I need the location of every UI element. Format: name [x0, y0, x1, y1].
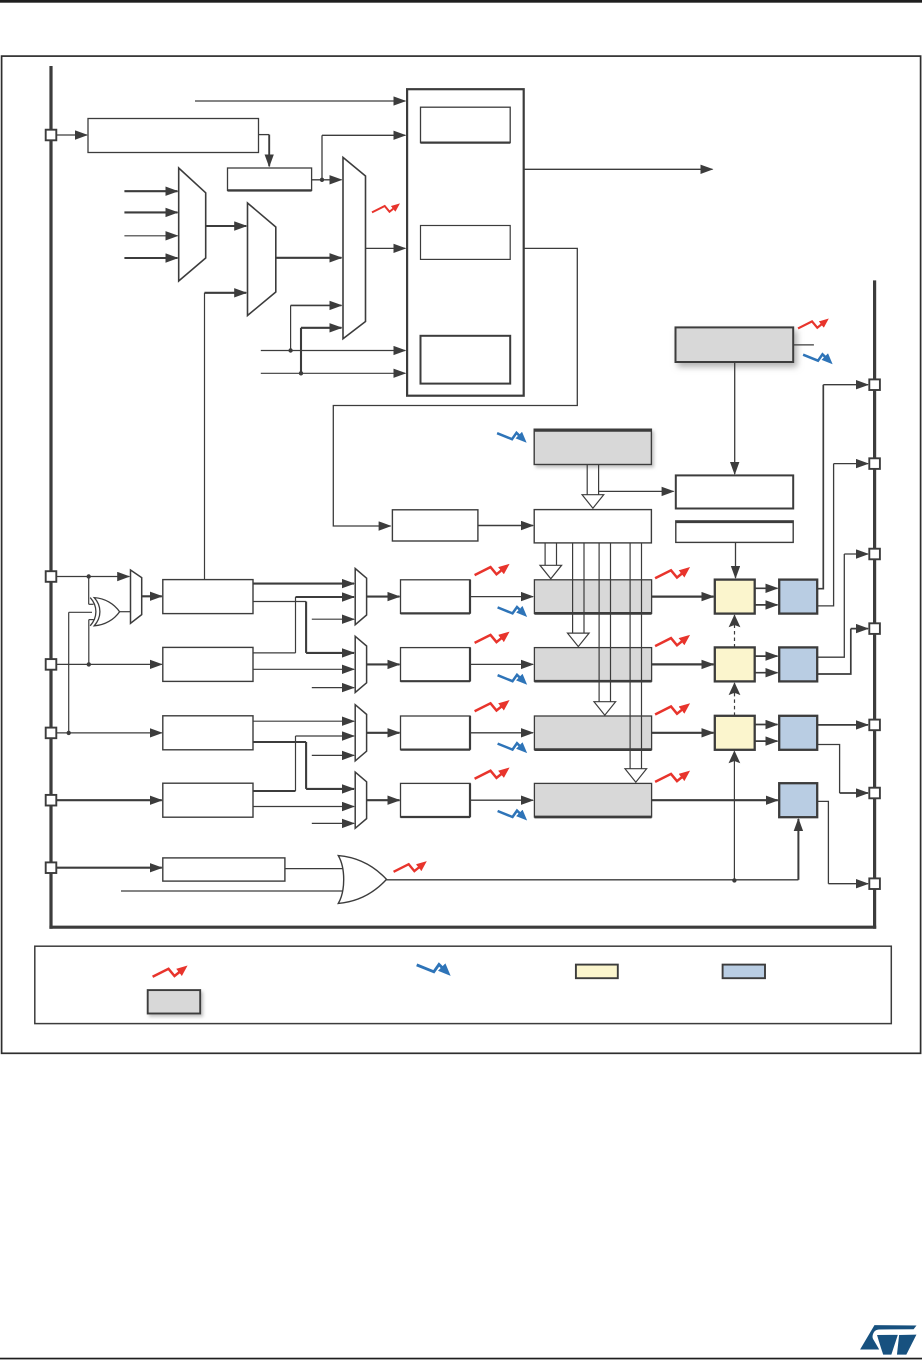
- wire CH3 tap to XOR: [69, 611, 92, 613]
- wire CH4 to IC4 filter: [56, 799, 161, 801]
- wire mux to IC1 prescaler: [367, 596, 400, 598]
- box output control OC1 (blue): [779, 580, 817, 614]
- ST Microelectronics logo: [860, 1325, 916, 1355]
- red event arrow at clock mux: [372, 206, 396, 212]
- node TIMx_CH2 on left bus: [46, 659, 57, 670]
- node TIMx_CH1 pin on right bus: [869, 379, 880, 390]
- wire TRC to IC4 mux: [312, 822, 354, 824]
- bottom bus link: [49, 926, 876, 929]
- wire ETR box to OR gate: [285, 868, 345, 870]
- figure outer frame: [2, 56, 921, 1053]
- wire TI1FP1 direct: [253, 583, 354, 585]
- stub wire from TRGO box: [793, 344, 814, 346]
- hollow arrow counter to CCR3: [598, 543, 600, 702]
- wire CH2 to IC2 filter: [56, 663, 161, 665]
- wire CCR2 to comparator: [652, 663, 714, 665]
- wire polarity box to input filter: [259, 134, 270, 136]
- wire TI4FP3 cross up: [253, 790, 296, 792]
- hollow arrow counter to CCR1: [544, 543, 546, 565]
- box IC2 prescaler: [401, 648, 471, 682]
- page top rule: [0, 0, 922, 3]
- wire ETRF to clock mux and trigger mux: [312, 179, 342, 181]
- wires comparator to output control 3: [755, 724, 778, 726]
- wire prescaler to capture register 3: [470, 732, 533, 734]
- legend yellow output stage box: [576, 965, 618, 979]
- blue interrupt arrow capture 4: [498, 811, 523, 817]
- wire ETRF up to OC4: [797, 819, 799, 880]
- block trigger controller: [407, 89, 524, 396]
- wire OC3N to pin: [817, 745, 839, 794]
- box trigger TRGO gray (shadowed): [676, 327, 794, 362]
- mux IC2 source select: [355, 636, 366, 692]
- mux slave mode controller select: [248, 203, 276, 316]
- box ETR input filter: [228, 168, 312, 190]
- legend gray shadowed register box: [148, 990, 201, 1013]
- box input filter & edge detector IC3: [163, 716, 253, 750]
- blue interrupt arrow at TRGO box: [803, 354, 828, 360]
- left APB bus (vertical): [49, 66, 52, 929]
- red event arrow CCR2 out: [655, 638, 685, 646]
- wire TI1FP2 cross down: [253, 601, 306, 603]
- box IC1 prescaler: [401, 580, 471, 614]
- wire TRC to IC1 mux: [312, 618, 354, 620]
- box slave controller aux: [676, 521, 793, 543]
- wire TI3FP4 cross down: [253, 741, 306, 743]
- red event arrow capture 2: [475, 635, 505, 643]
- wire TRGO output to other timers: [524, 168, 713, 170]
- box input filter & edge detector IC2: [163, 647, 253, 681]
- wire external trigger input to OR gate: [121, 890, 344, 892]
- red event arrow CCR1 out: [655, 570, 685, 578]
- wire OC2 to TIMx_CH2 pin: [817, 554, 844, 657]
- wire aux box to CC1 output stage: [735, 543, 737, 578]
- mux IC4 source select: [355, 772, 366, 828]
- box IC4 prescaler: [401, 783, 471, 817]
- wire ITR1 input: [124, 211, 177, 213]
- wire prescaler to capture register 2: [470, 663, 533, 665]
- mux IC3 source select: [355, 705, 366, 761]
- wire TI1FP1 tap to clock mux and block: [261, 350, 406, 352]
- box counter CNT: [534, 510, 651, 543]
- wire OC1N to pin: [817, 464, 833, 606]
- box auto-reload register ARR (shadowed): [534, 429, 651, 464]
- wire TI2FP2 direct: [253, 668, 354, 670]
- wire prescaler to capture register 1: [470, 596, 533, 598]
- box IC3 prescaler: [401, 716, 471, 750]
- wire compare chain CC3 to CC2 (dashed): [734, 693, 736, 716]
- node pin node on right bus: [869, 458, 880, 469]
- box encoder interface: [421, 226, 511, 260]
- wire mux to IC2 prescaler: [367, 663, 400, 665]
- wire mux to slave mode mux: [206, 225, 247, 227]
- legend frame: [35, 946, 892, 1023]
- node TIMx_ETR on left bus: [46, 130, 57, 141]
- red event arrow CCR4 out: [655, 774, 685, 782]
- box input filter & edge detector IC1: [163, 580, 253, 614]
- node TIMx_CH3 on left bus: [46, 728, 57, 739]
- XOR gate TI1 selection: [90, 598, 96, 626]
- box output control OC3 (blue): [779, 716, 817, 750]
- legend blue output control box: [723, 965, 765, 979]
- box capture/compare register CCR4: [534, 783, 651, 817]
- wire TI2FP1 cross up: [253, 652, 296, 654]
- hollow arrow counter to CCR4: [629, 543, 631, 769]
- wire OC4 to TIMx_CH4 pin: [817, 801, 828, 883]
- wire node to ETR filter box: [56, 867, 161, 869]
- mux TI1 input select: [131, 570, 142, 623]
- box polarity selection & edge detector & prescaler: [88, 119, 259, 153]
- wire prescaler to capture register 4: [470, 799, 533, 801]
- mux clock source select (tall): [343, 157, 366, 338]
- wire TRC to IC3 mux: [312, 754, 354, 756]
- box output control OC2 (blue): [779, 647, 817, 681]
- node TIMx_CH3 pin on right bus: [869, 720, 880, 731]
- wire update event UEV to stop clear box: [599, 490, 674, 492]
- wire ETRF output: [387, 879, 799, 881]
- wire ETRF to CC3 chain: [733, 762, 735, 880]
- wires comparator to output control 2: [755, 655, 778, 657]
- wire TI4FP4 direct: [253, 806, 354, 808]
- red event arrow capture 3: [475, 703, 505, 711]
- box comparator CC3 (yellow): [715, 716, 755, 750]
- wire TRC to IC2 mux: [312, 687, 354, 689]
- box capture/compare register CCR2: [534, 648, 651, 682]
- blue interrupt arrow capture 1: [498, 607, 523, 613]
- OR gate ETRF: [338, 856, 386, 904]
- wire CK_PSC loop to prescaler: [333, 248, 577, 526]
- blue interrupt arrow capture 3: [498, 743, 523, 749]
- node pin node 2 on right bus: [869, 623, 880, 634]
- legend blue interrupt arrow: [417, 964, 446, 971]
- node TIMx_CH4 on left bus: [46, 795, 57, 806]
- node TIMx_CH1 on left bus: [46, 571, 57, 582]
- wire OC2N to pin: [817, 629, 851, 674]
- wire TRGO box to stop clear box: [734, 362, 736, 474]
- red event arrow CCR3 out: [655, 707, 685, 715]
- red event arrow at TRGO box: [798, 321, 824, 328]
- red event arrow capture 4: [475, 771, 505, 779]
- node TIMx_ETR bottom on left bus: [46, 862, 57, 873]
- wire clock mux to control block: [366, 247, 406, 249]
- box input filter & edge detector IC4: [163, 783, 253, 817]
- right pin bus (vertical): [873, 280, 876, 928]
- wire TI2FP2 tap to clock mux and block: [261, 372, 406, 374]
- mux IC1 source select: [355, 569, 366, 625]
- wire CH1 to TI1 mux: [56, 576, 129, 578]
- wire CH3 to IC3 filter: [56, 732, 161, 734]
- page bottom rule: [0, 1358, 922, 1360]
- wire TI1F_ED from channel 1 filter: [204, 293, 206, 579]
- wire XOR output to TI1 mux: [119, 611, 130, 613]
- box prescaler PSC: [392, 510, 478, 541]
- box stop clear or up/down: [676, 475, 793, 508]
- mux TRGI source select: [179, 168, 206, 281]
- blue event arrow at auto-reload register: [497, 433, 522, 439]
- hollow arrow ARR to counter: [586, 465, 588, 495]
- wire mux to IC4 prescaler: [367, 799, 400, 801]
- hollow arrow counter to CCR2: [572, 543, 574, 633]
- node TIMx_CH4 pin on right bus: [869, 878, 880, 889]
- wire CH1 tap to XOR: [88, 577, 90, 605]
- wire CCR1 to comparator: [652, 595, 714, 597]
- wire slave mux to clock mux: [276, 257, 342, 259]
- box comparator CC2 (yellow): [715, 647, 755, 681]
- wire CCR3 to comparator: [652, 732, 714, 734]
- wire internal clock CK_INT: [195, 100, 405, 102]
- wire prescaler to counter: [478, 525, 533, 527]
- legend red event arrow: [153, 969, 183, 977]
- node pin node 3 on right bus: [869, 788, 880, 799]
- wire ITR3 input: [124, 257, 177, 259]
- wire ITR0 input: [124, 190, 177, 192]
- blue interrupt arrow capture 2: [498, 675, 523, 681]
- wire OC3 to TIMx_CH3 pin: [817, 724, 868, 726]
- red event arrow capture 1: [475, 567, 505, 575]
- box output control OC4 (blue): [779, 783, 817, 817]
- wires comparator to output control 1: [755, 587, 778, 589]
- wire compare chain CC2 to CC1 (dashed): [734, 625, 736, 648]
- box slave mode controller: [421, 107, 511, 142]
- wire TI3FP3 direct: [253, 720, 354, 722]
- wire TI1 mux to IC1 filter: [142, 595, 162, 597]
- box clock gating: [421, 336, 511, 384]
- box capture/compare register CCR3: [534, 716, 651, 750]
- wire mux to IC3 prescaler: [367, 732, 400, 734]
- wire CH2 tap to XOR: [88, 620, 90, 665]
- wire ITR2 input: [124, 235, 177, 237]
- wire node to polarity box: [56, 134, 87, 136]
- wire OC1 to TIMx_CH1 pin: [817, 385, 823, 589]
- red event arrow at OR gate: [394, 864, 422, 872]
- node TIMx_CH2 pin on right bus: [869, 549, 880, 560]
- box capture/compare register CCR1: [534, 580, 651, 614]
- wire CCR4 to output control: [652, 799, 778, 801]
- box comparator CC1 (yellow): [715, 580, 755, 614]
- box ETR polarity & filter: [163, 858, 285, 881]
